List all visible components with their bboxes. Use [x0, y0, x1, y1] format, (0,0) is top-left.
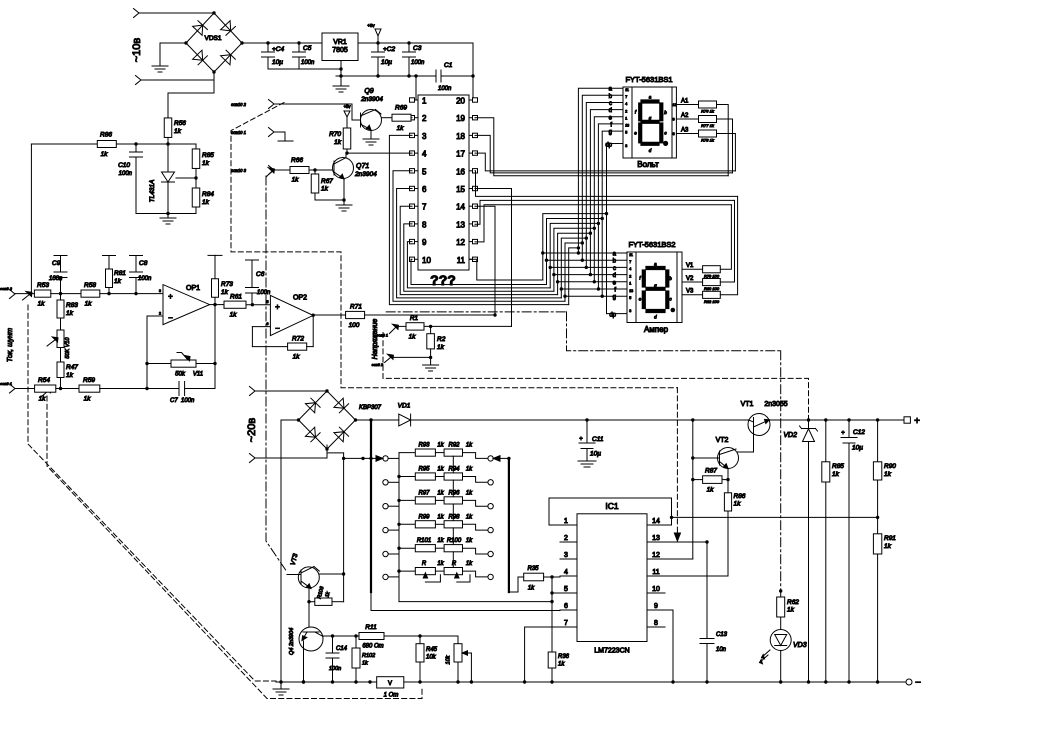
- svg-text:+: +: [275, 303, 280, 312]
- resistor R56 1k: [164, 118, 186, 138]
- svg-text:5: 5: [564, 586, 568, 593]
- wire digit select A2 (pin18): [475, 135, 733, 173]
- resistor R73 1k: [208, 255, 233, 304]
- wire pin7 to ground rail: [525, 627, 560, 682]
- transistor VT1 2n3055: [737, 401, 788, 452]
- capacitor C1 100n: [436, 62, 475, 92]
- dash-dot boundary measure section: [386, 312, 781, 351]
- svg-text:VDS1: VDS1: [205, 35, 222, 42]
- svg-text:C8: C8: [139, 260, 148, 267]
- node con8-2: [372, 354, 394, 367]
- svg-text:4: 4: [422, 150, 427, 159]
- svg-text:R71: R71: [350, 304, 362, 311]
- svg-text:1k: 1k: [734, 501, 742, 508]
- svg-text:7805: 7805: [332, 47, 348, 54]
- svg-text:1k: 1k: [437, 467, 444, 473]
- svg-text:???: ???: [430, 272, 456, 288]
- wire R77 to A2 column: [717, 119, 733, 173]
- svg-text:8: 8: [673, 132, 675, 136]
- svg-text:4: 4: [564, 569, 568, 576]
- wire bridge left node to ground: [160, 43, 186, 66]
- svg-text:V1: V1: [686, 263, 694, 269]
- svg-text:R94: R94: [448, 467, 460, 473]
- wire segment bus a (pin 3): [389, 88, 623, 304]
- op-amp OP2: [267, 295, 314, 336]
- svg-text:9: 9: [654, 603, 658, 610]
- svg-text:3: 3: [159, 289, 161, 293]
- svg-text:R: R: [452, 561, 457, 567]
- svg-text:Вольт: Вольт: [637, 160, 659, 169]
- svg-text:12: 12: [456, 238, 465, 247]
- svg-text:c: c: [613, 266, 616, 272]
- svg-text:5: 5: [422, 167, 427, 176]
- svg-text:11: 11: [629, 253, 633, 257]
- svg-text:1k: 1k: [85, 301, 93, 308]
- resistor R2 1k: [427, 326, 446, 351]
- bridge rectifier KBP307: [297, 389, 382, 450]
- svg-text:10n: 10n: [716, 647, 727, 653]
- svg-text:R98: R98: [448, 514, 460, 520]
- svg-text:R96: R96: [448, 490, 460, 496]
- ground (Q9 emitter): [363, 139, 379, 145]
- svg-text:2: 2: [422, 114, 427, 123]
- wire bridge output rail: [242, 41, 322, 44]
- node con3-2 (shunt input): [0, 286, 32, 300]
- svg-text:1k: 1k: [437, 514, 444, 520]
- svg-text:V11: V11: [193, 372, 203, 378]
- svg-text:VT2: VT2: [716, 437, 729, 444]
- svg-text:R78 1k: R78 1k: [701, 138, 715, 143]
- svg-text:R72: R72: [292, 336, 304, 343]
- shunt V 1 Om: [377, 677, 404, 699]
- svg-text:1k: 1k: [66, 310, 74, 317]
- svg-text:C6: C6: [256, 271, 265, 278]
- svg-text:FYT-5631BS2: FYT-5631BS2: [628, 240, 675, 249]
- transistor Q9 2n3904: [360, 88, 383, 131]
- svg-text:2: 2: [159, 312, 161, 316]
- resistor R1 1k: [406, 315, 424, 341]
- trimmer V10 50K: [47, 318, 71, 359]
- svg-text:100n: 100n: [411, 60, 425, 66]
- input terminal ~20v bottom: [250, 454, 256, 463]
- wire V1 stub: [682, 263, 703, 269]
- wire segment bus f (pin 9): [407, 124, 627, 291]
- resistor R70 1k: [329, 128, 351, 149]
- svg-text:R83: R83: [66, 302, 78, 309]
- wire segment bus dp (pin 11): [469, 144, 627, 314]
- svg-text:17: 17: [456, 150, 465, 159]
- dash-dot line to R62: [780, 351, 782, 589]
- svg-text:13: 13: [625, 124, 629, 128]
- capacitor C11 10u: [579, 420, 604, 461]
- wire matrix left column: [397, 453, 400, 602]
- svg-text:R11: R11: [365, 624, 377, 631]
- svg-text:2n3055: 2n3055: [764, 401, 787, 408]
- node con3-1: [0, 381, 51, 397]
- label Napryazhenie: [372, 319, 379, 360]
- resistor R59 1k: [79, 377, 100, 403]
- trimmer V11 50k: [147, 353, 215, 378]
- svg-text:2: 2: [625, 109, 627, 113]
- svg-text:2n3904: 2n3904: [360, 96, 383, 103]
- svg-text:20: 20: [456, 97, 465, 106]
- wire R82 to V3 column: [720, 196, 737, 294]
- svg-text:8: 8: [422, 220, 427, 229]
- selector contact row1 left: [361, 456, 383, 462]
- svg-text:con3 1: con3 1: [0, 381, 12, 386]
- svg-text:C14: C14: [336, 646, 348, 652]
- svg-text:1k: 1k: [466, 538, 473, 544]
- svg-text:9: 9: [673, 118, 675, 122]
- node con8-1: [377, 324, 399, 337]
- svg-text:10µ: 10µ: [272, 59, 283, 66]
- selector bus left (thick): [369, 420, 372, 611]
- svg-text:R80 100: R80 100: [704, 286, 720, 291]
- svg-text:R85: R85: [832, 463, 844, 470]
- resistor R87 1k: [693, 468, 730, 494]
- svg-text:−: −: [915, 678, 921, 689]
- svg-text:12: 12: [652, 552, 660, 559]
- wire Q9 emitter: [370, 131, 372, 140]
- wire OP1 minus input: [145, 316, 163, 389]
- wire digital ground rail: [336, 74, 436, 77]
- resistor R90 1k: [873, 420, 896, 517]
- capacitor C5 100n: [293, 43, 316, 69]
- resistor R79 100: [703, 266, 721, 279]
- wire bottom input to bridge: [141, 72, 214, 80]
- wire top input to KBP307: [255, 390, 327, 392]
- svg-text:LM7223CN: LM7223CN: [594, 648, 629, 655]
- capacitor C12 10u: [841, 420, 865, 682]
- wire con3-2 to R53: [15, 293, 34, 295]
- svg-text:R62: R62: [787, 599, 799, 606]
- svg-text:R102: R102: [362, 653, 375, 659]
- svg-text:1k: 1k: [174, 128, 182, 135]
- svg-text:con10 2: con10 2: [231, 102, 247, 107]
- svg-text:100: 100: [349, 322, 360, 329]
- wire Q4 collector row: [323, 634, 359, 637]
- wire bridge feed to row1: [342, 457, 363, 460]
- wire R61 to OP2 plus: [246, 303, 270, 306]
- svg-text:1k: 1k: [437, 344, 445, 351]
- svg-text:~20в: ~20в: [246, 418, 258, 443]
- input terminal ~10v top: [131, 9, 143, 63]
- svg-text:10: 10: [652, 586, 660, 593]
- power symbol +5v: [367, 23, 381, 43]
- svg-text:R86: R86: [734, 493, 746, 500]
- wire R69 to pin2: [411, 117, 412, 119]
- svg-text:3: 3: [564, 552, 568, 559]
- wire digit select A1 (pin19): [475, 118, 728, 176]
- svg-text:2n3904: 2n3904: [354, 171, 377, 178]
- wire KBP307 bottom to VT3 feed: [327, 453, 344, 574]
- wire segment bus g (pin 10): [411, 131, 627, 298]
- svg-text:C12: C12: [853, 429, 865, 436]
- wire bottom input to KBP307: [255, 445, 327, 458]
- svg-text:19: 19: [456, 114, 465, 123]
- capacitor C10 100n: [118, 144, 142, 214]
- svg-text:11: 11: [652, 569, 659, 576]
- wire A3 stub: [676, 128, 698, 134]
- wire con8-2 to R2: [391, 349, 433, 365]
- svg-text:1k: 1k: [707, 487, 715, 494]
- resistor R67 1k: [311, 170, 333, 193]
- wire collector node to pin4: [346, 152, 412, 154]
- svg-text:Q9: Q9: [364, 88, 373, 95]
- svg-text:Q4 2n3904: Q4 2n3904: [289, 628, 295, 655]
- resistor R83 1k: [57, 294, 78, 318]
- wire con8-1 to R1: [396, 325, 407, 327]
- wire R70 to node: [345, 149, 348, 155]
- zener diode VD2: [783, 420, 817, 682]
- wire R58 to OP1 plus: [100, 292, 163, 295]
- svg-text:1k: 1k: [437, 538, 444, 544]
- resistor R69 1k: [392, 105, 411, 133]
- capacitor C2 10u: [372, 43, 396, 76]
- svg-text:R81: R81: [114, 270, 126, 277]
- wire pin11 to R86 column: [665, 511, 728, 576]
- power symbol +5v (R70): [344, 104, 352, 128]
- svg-text:15: 15: [456, 185, 465, 194]
- resistor R54 1k: [35, 377, 56, 403]
- svg-text:100n: 100n: [119, 171, 133, 177]
- capacitor C6 100n: [246, 260, 272, 305]
- svg-text:1k: 1k: [466, 490, 473, 496]
- wire R54 to R59: [56, 388, 79, 390]
- svg-text:VD2: VD2: [783, 432, 797, 439]
- svg-text:1k: 1k: [334, 139, 342, 146]
- svg-text:1k: 1k: [884, 471, 892, 478]
- ground (Q71): [336, 205, 352, 211]
- svg-text:R73: R73: [221, 281, 233, 288]
- capacitor C9 100n: [49, 256, 67, 294]
- capacitor C3 100n: [403, 43, 426, 76]
- wire V3 stub: [682, 289, 703, 295]
- svg-text:5: 5: [625, 131, 627, 135]
- capacitor C7 100n: [147, 382, 215, 405]
- input terminal ~20v top: [246, 387, 258, 443]
- wire V2 stub: [682, 276, 703, 282]
- svg-text:C10: C10: [118, 162, 130, 169]
- dashed link con3-2 run: [28, 305, 276, 681]
- resistor R86 1k (output): [724, 469, 745, 512]
- svg-text:1k: 1k: [321, 186, 329, 193]
- wire R79 to V1 column: [720, 205, 731, 270]
- svg-text:13: 13: [652, 535, 660, 542]
- svg-text:1k: 1k: [202, 160, 210, 167]
- IC IC1 LM7223CN: [560, 501, 665, 655]
- resistor R72 1k: [252, 315, 313, 360]
- ground (R2): [423, 365, 439, 371]
- svg-text:R76 1k: R76 1k: [701, 109, 715, 114]
- resistor R36 1k: [548, 652, 569, 682]
- svg-text:1k: 1k: [437, 490, 444, 496]
- svg-text:11: 11: [625, 88, 629, 92]
- preset row R93/R92 1k: [383, 443, 494, 473]
- dashed boundary digital left: [231, 103, 677, 388]
- svg-text:5: 5: [267, 300, 269, 304]
- resistor R76 1k: [699, 101, 717, 114]
- wire Q9 collector to R69: [382, 117, 393, 119]
- resistor R81 1k: [103, 256, 127, 294]
- wire R1 to pin15 line: [424, 325, 512, 328]
- svg-text:1: 1: [625, 116, 627, 120]
- resistor R78 1k: [699, 130, 717, 143]
- svg-text:g: g: [609, 130, 612, 136]
- svg-text:1k: 1k: [362, 661, 368, 667]
- transistor Q71 2n3904: [333, 158, 378, 180]
- node con10-2: [231, 100, 274, 109]
- wire +5 to pin20: [472, 43, 474, 100]
- voltage regulator VR1 7805: [322, 33, 358, 61]
- svg-text:1k: 1k: [66, 372, 74, 379]
- wire Q71 collector: [345, 153, 347, 157]
- wire pin5 branch: [550, 591, 560, 594]
- svg-text:R85: R85: [202, 152, 214, 159]
- svg-text:C5: C5: [303, 45, 312, 52]
- svg-text:1k: 1k: [884, 543, 892, 550]
- wire OP2 minus input: [252, 327, 270, 347]
- svg-text:1k: 1k: [230, 312, 238, 319]
- svg-text:10µ: 10µ: [381, 59, 392, 66]
- resistor R47 1k: [57, 348, 78, 380]
- wire KBP307 left to ground rail: [281, 420, 299, 682]
- svg-text:2: 2: [564, 535, 568, 542]
- wire pin1 feedback loop: [549, 498, 672, 525]
- svg-text:−: −: [168, 314, 173, 323]
- svg-text:A1: A1: [681, 99, 689, 105]
- svg-text:R35: R35: [527, 566, 539, 572]
- svg-text:R100: R100: [447, 538, 462, 544]
- svg-text:C13: C13: [716, 632, 728, 638]
- transistor VT3: [287, 553, 319, 589]
- svg-text:R59: R59: [83, 377, 95, 384]
- svg-text:V3: V3: [686, 289, 694, 295]
- svg-text:3: 3: [629, 309, 631, 313]
- svg-text:1k: 1k: [466, 443, 473, 449]
- svg-text:8: 8: [654, 620, 658, 627]
- wire OP1 feedback vertical: [213, 305, 216, 389]
- svg-text:R82 100: R82 100: [704, 299, 720, 304]
- wire pin14 junction: [665, 498, 673, 525]
- wire Q71 emitter to ground: [315, 179, 346, 205]
- svg-text:3: 3: [422, 132, 427, 141]
- wire segment bus b (pin 5): [393, 95, 627, 301]
- svg-text:100n: 100n: [329, 666, 341, 672]
- transistor Q4 2n3904: [289, 627, 323, 655]
- svg-text:4: 4: [629, 267, 631, 271]
- wire digit select V2 (pin13): [475, 200, 735, 224]
- wire digit select A3 (pin17): [475, 153, 735, 171]
- svg-text:R66: R66: [291, 157, 303, 164]
- wire R35 to pin4: [544, 575, 560, 578]
- svg-text:R67: R67: [321, 178, 333, 185]
- svg-text:con10 1: con10 1: [231, 130, 246, 135]
- svg-text:R70: R70: [329, 131, 341, 138]
- svg-text:R86: R86: [100, 132, 112, 139]
- svg-text:11: 11: [457, 256, 466, 265]
- svg-text:10µ: 10µ: [852, 445, 863, 452]
- svg-text:10: 10: [422, 256, 431, 265]
- svg-text:6: 6: [422, 185, 427, 194]
- svg-text:1k: 1k: [466, 561, 473, 567]
- svg-text:Ток, шунт: Ток, шунт: [7, 328, 14, 362]
- svg-text:6: 6: [564, 603, 568, 610]
- svg-text:1k: 1k: [202, 199, 210, 206]
- preset row R97/R96 1k: [383, 490, 494, 520]
- svg-text:VR1: VR1: [333, 39, 347, 46]
- svg-text:13: 13: [456, 220, 465, 229]
- svg-text:100n: 100n: [138, 276, 152, 282]
- svg-text:R36: R36: [558, 654, 570, 660]
- wire pin12 to VT2 base column: [665, 420, 695, 559]
- wire feedback tap line: [672, 516, 880, 519]
- svg-text:680 Om: 680 Om: [362, 644, 383, 650]
- svg-text:1k: 1k: [832, 471, 840, 478]
- svg-text:1k: 1k: [101, 151, 109, 158]
- wire R71 to ADC: [365, 313, 497, 316]
- resistor R86 1k: [97, 132, 116, 159]
- resistor R53 1k: [34, 282, 50, 308]
- svg-text:1k: 1k: [528, 586, 535, 592]
- dashed link con3-1 run: [47, 396, 422, 699]
- ground (bridge left): [152, 66, 168, 72]
- svg-text:1k: 1k: [38, 301, 46, 308]
- svg-text:1k: 1k: [437, 561, 444, 567]
- wire pin15 to R1 node: [475, 189, 512, 327]
- svg-text:R97: R97: [418, 490, 430, 496]
- wire R80 to V2 column: [720, 200, 734, 282]
- wire negative ground rail: [276, 680, 906, 683]
- dashed boundary to IC1 pin13 arrow: [674, 388, 680, 541]
- wire R11 to R45: [384, 634, 458, 637]
- svg-text:7: 7: [625, 95, 627, 99]
- svg-text:C1: C1: [444, 62, 453, 69]
- svg-text:+: +: [579, 437, 583, 443]
- svg-text:100n: 100n: [49, 276, 63, 282]
- svg-text:50K V10: 50K V10: [65, 337, 71, 359]
- svg-text:R79 100: R79 100: [704, 273, 720, 278]
- svg-text:3: 3: [625, 144, 627, 148]
- svg-text:1k: 1k: [84, 396, 92, 403]
- svg-text:dp: dp: [605, 143, 612, 149]
- wire matrix bottom to R36 node: [399, 600, 554, 603]
- svg-text:C9: C9: [52, 260, 61, 267]
- svg-text:OP1: OP1: [186, 285, 200, 292]
- wire R59 to C7 node: [100, 387, 149, 390]
- svg-text:c: c: [609, 101, 612, 107]
- svg-text:R90: R90: [884, 463, 896, 470]
- wire segment bus d (pin 7): [400, 110, 627, 295]
- wire pin14 to R71 node: [475, 206, 495, 315]
- node con10-1: [231, 128, 274, 137]
- svg-text:1k: 1k: [437, 443, 444, 449]
- svg-text:C11: C11: [592, 436, 604, 443]
- capacitor C4 10u: [262, 43, 285, 69]
- resistor R91 1k: [873, 517, 896, 682]
- svg-text:C3: C3: [413, 45, 422, 52]
- svg-text:+C2: +C2: [383, 46, 395, 53]
- wire C4 C5 ground link: [268, 67, 343, 70]
- svg-text:1k: 1k: [558, 662, 565, 668]
- wire KBP307 right node: [356, 419, 399, 421]
- svg-text:A2: A2: [681, 113, 689, 119]
- IC U1 ??? microcontroller: [410, 95, 478, 288]
- svg-text:7: 7: [564, 620, 568, 627]
- terminal minus: [906, 678, 921, 689]
- wire A2 stub: [676, 113, 698, 119]
- svg-text:con10 3: con10 3: [231, 168, 247, 173]
